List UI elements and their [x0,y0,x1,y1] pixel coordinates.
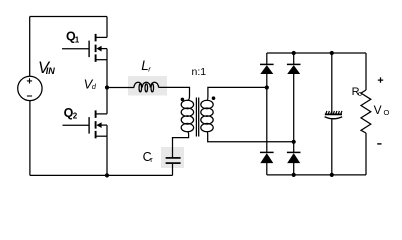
svg-text:1: 1 [75,36,80,45]
svg-text:O: O [384,108,390,117]
svg-text:n:1: n:1 [192,66,207,78]
svg-text:V: V [374,103,382,117]
svg-text:o: o [358,91,362,98]
svg-text:2: 2 [73,112,78,121]
svg-text:IN: IN [46,66,56,76]
